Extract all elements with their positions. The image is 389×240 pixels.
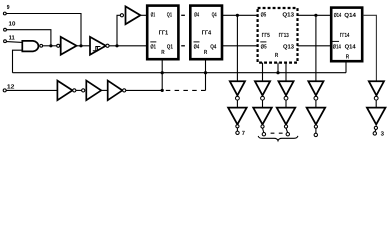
wire down to column 4 <box>315 15 317 81</box>
wire D7 out <box>126 89 162 91</box>
svg-text:Q13: Q13 <box>282 12 294 19</box>
svg-text:Ø4: Ø4 <box>194 43 200 50</box>
generator block GG1 <box>147 6 178 60</box>
divider column 2 <box>253 63 272 136</box>
junction R GG4 <box>204 71 207 74</box>
svg-text:3: 3 <box>381 130 385 137</box>
svg-text:ГГ13: ГГ13 <box>279 32 290 39</box>
junction R GG1 <box>161 71 164 74</box>
input terminal 11 <box>4 34 16 42</box>
R pin GG5-13 <box>277 63 279 73</box>
buffer D4 <box>120 6 140 24</box>
svg-text:R: R <box>275 52 279 59</box>
svg-text:7: 7 <box>242 130 246 137</box>
Schmitt trigger D3 <box>90 37 109 55</box>
inverter D7 <box>108 81 126 101</box>
input terminal 12 <box>3 83 15 92</box>
svg-text:Ø5: Ø5 <box>261 12 267 19</box>
wire 12 to inverter D5 <box>6 89 57 91</box>
wire 11 to gate D1 input 1 <box>7 41 23 44</box>
svg-text:ГГ14: ГГ14 <box>340 32 350 39</box>
dashes between terminals <box>271 132 284 134</box>
svg-text:Q14: Q14 <box>345 44 357 51</box>
wire D4 out to block G1 <box>140 14 146 16</box>
svg-text:R: R <box>161 49 165 56</box>
wire GG14 Q14 to column 5 <box>363 15 377 81</box>
svg-text:Ø14: Ø14 <box>334 12 342 19</box>
divider column 4 <box>307 81 326 136</box>
svg-text:ГГ4: ГГ4 <box>202 29 212 36</box>
NAND gate D1 <box>22 41 42 52</box>
svg-text:Q1: Q1 <box>167 43 174 50</box>
wire R bus to gate D1 input 2 <box>13 50 23 72</box>
wire 9 to node A <box>6 14 81 46</box>
svg-text:9: 9 <box>7 4 10 11</box>
wire node C up to buffer D4 <box>117 15 120 46</box>
input terminal 10 <box>4 21 16 32</box>
svg-text:Q4: Q4 <box>210 43 217 50</box>
generator block GG4 <box>190 6 222 60</box>
svg-text:Q13: Q13 <box>283 43 295 50</box>
wire GG13 Q13b to GG14 <box>298 45 332 47</box>
svg-text:Q4: Q4 <box>212 12 217 19</box>
generator block GG14 <box>331 8 362 62</box>
junction to divider column 4 <box>314 14 317 17</box>
svg-text:ГГ1: ГГ1 <box>159 29 169 36</box>
wire dash GG1 Q1 to GG4 <box>181 14 185 16</box>
wire GG4 Q4 to GG5 <box>222 14 257 16</box>
wire 10 to node B <box>7 30 51 46</box>
svg-text:R: R <box>346 54 350 61</box>
input terminal 9 <box>3 4 10 15</box>
dashed reset wire continuation <box>166 89 206 91</box>
svg-text:Ø4: Ø4 <box>194 12 199 19</box>
svg-text:ГГ5: ГГ5 <box>262 32 271 39</box>
buffer D6 <box>82 81 102 101</box>
junction reset node <box>161 89 164 92</box>
svg-text:Ø1: Ø1 <box>151 12 156 19</box>
divider column 3 <box>277 63 296 136</box>
dashed block GG5..GG13 <box>258 8 298 63</box>
wire GG4 Q4b to GG5 <box>222 45 257 47</box>
svg-text:Ø1: Ø1 <box>150 43 156 50</box>
wire down to column 1 <box>236 15 238 81</box>
underbrace <box>258 136 298 141</box>
junction node C <box>115 44 118 47</box>
svg-text:Ø14: Ø14 <box>333 44 341 51</box>
svg-text:11: 11 <box>9 34 16 41</box>
wire GG13 Q13 to GG14 <box>298 14 332 16</box>
junction node B <box>49 44 52 47</box>
divider column 1 <box>228 81 247 137</box>
wire D1 out <box>43 45 57 47</box>
R pin GG4 <box>205 60 207 90</box>
wire dash GG1 Q1b to GG4 <box>181 45 185 47</box>
inverter D2 <box>57 37 77 55</box>
inverter D5 <box>57 81 76 101</box>
wire D3 out to block G1 <box>109 45 146 47</box>
svg-text:10: 10 <box>9 21 17 28</box>
divider column 5 <box>367 81 386 137</box>
svg-text:Q14: Q14 <box>344 12 356 19</box>
R pin GG14 <box>345 61 347 72</box>
svg-text:Ø5: Ø5 <box>261 43 267 50</box>
R bus <box>13 72 347 74</box>
wire D5 to D6 <box>76 89 82 91</box>
svg-text:R: R <box>204 49 208 56</box>
svg-text:Q1: Q1 <box>167 12 173 19</box>
wire D2 out <box>77 45 91 47</box>
junction node A <box>79 44 82 47</box>
wire D6 to D7 <box>101 89 108 91</box>
svg-text:12: 12 <box>7 83 15 90</box>
R pin GG1 <box>161 60 163 90</box>
junction R GG5-13 <box>276 71 279 74</box>
junction to divider column 1 <box>236 14 239 17</box>
